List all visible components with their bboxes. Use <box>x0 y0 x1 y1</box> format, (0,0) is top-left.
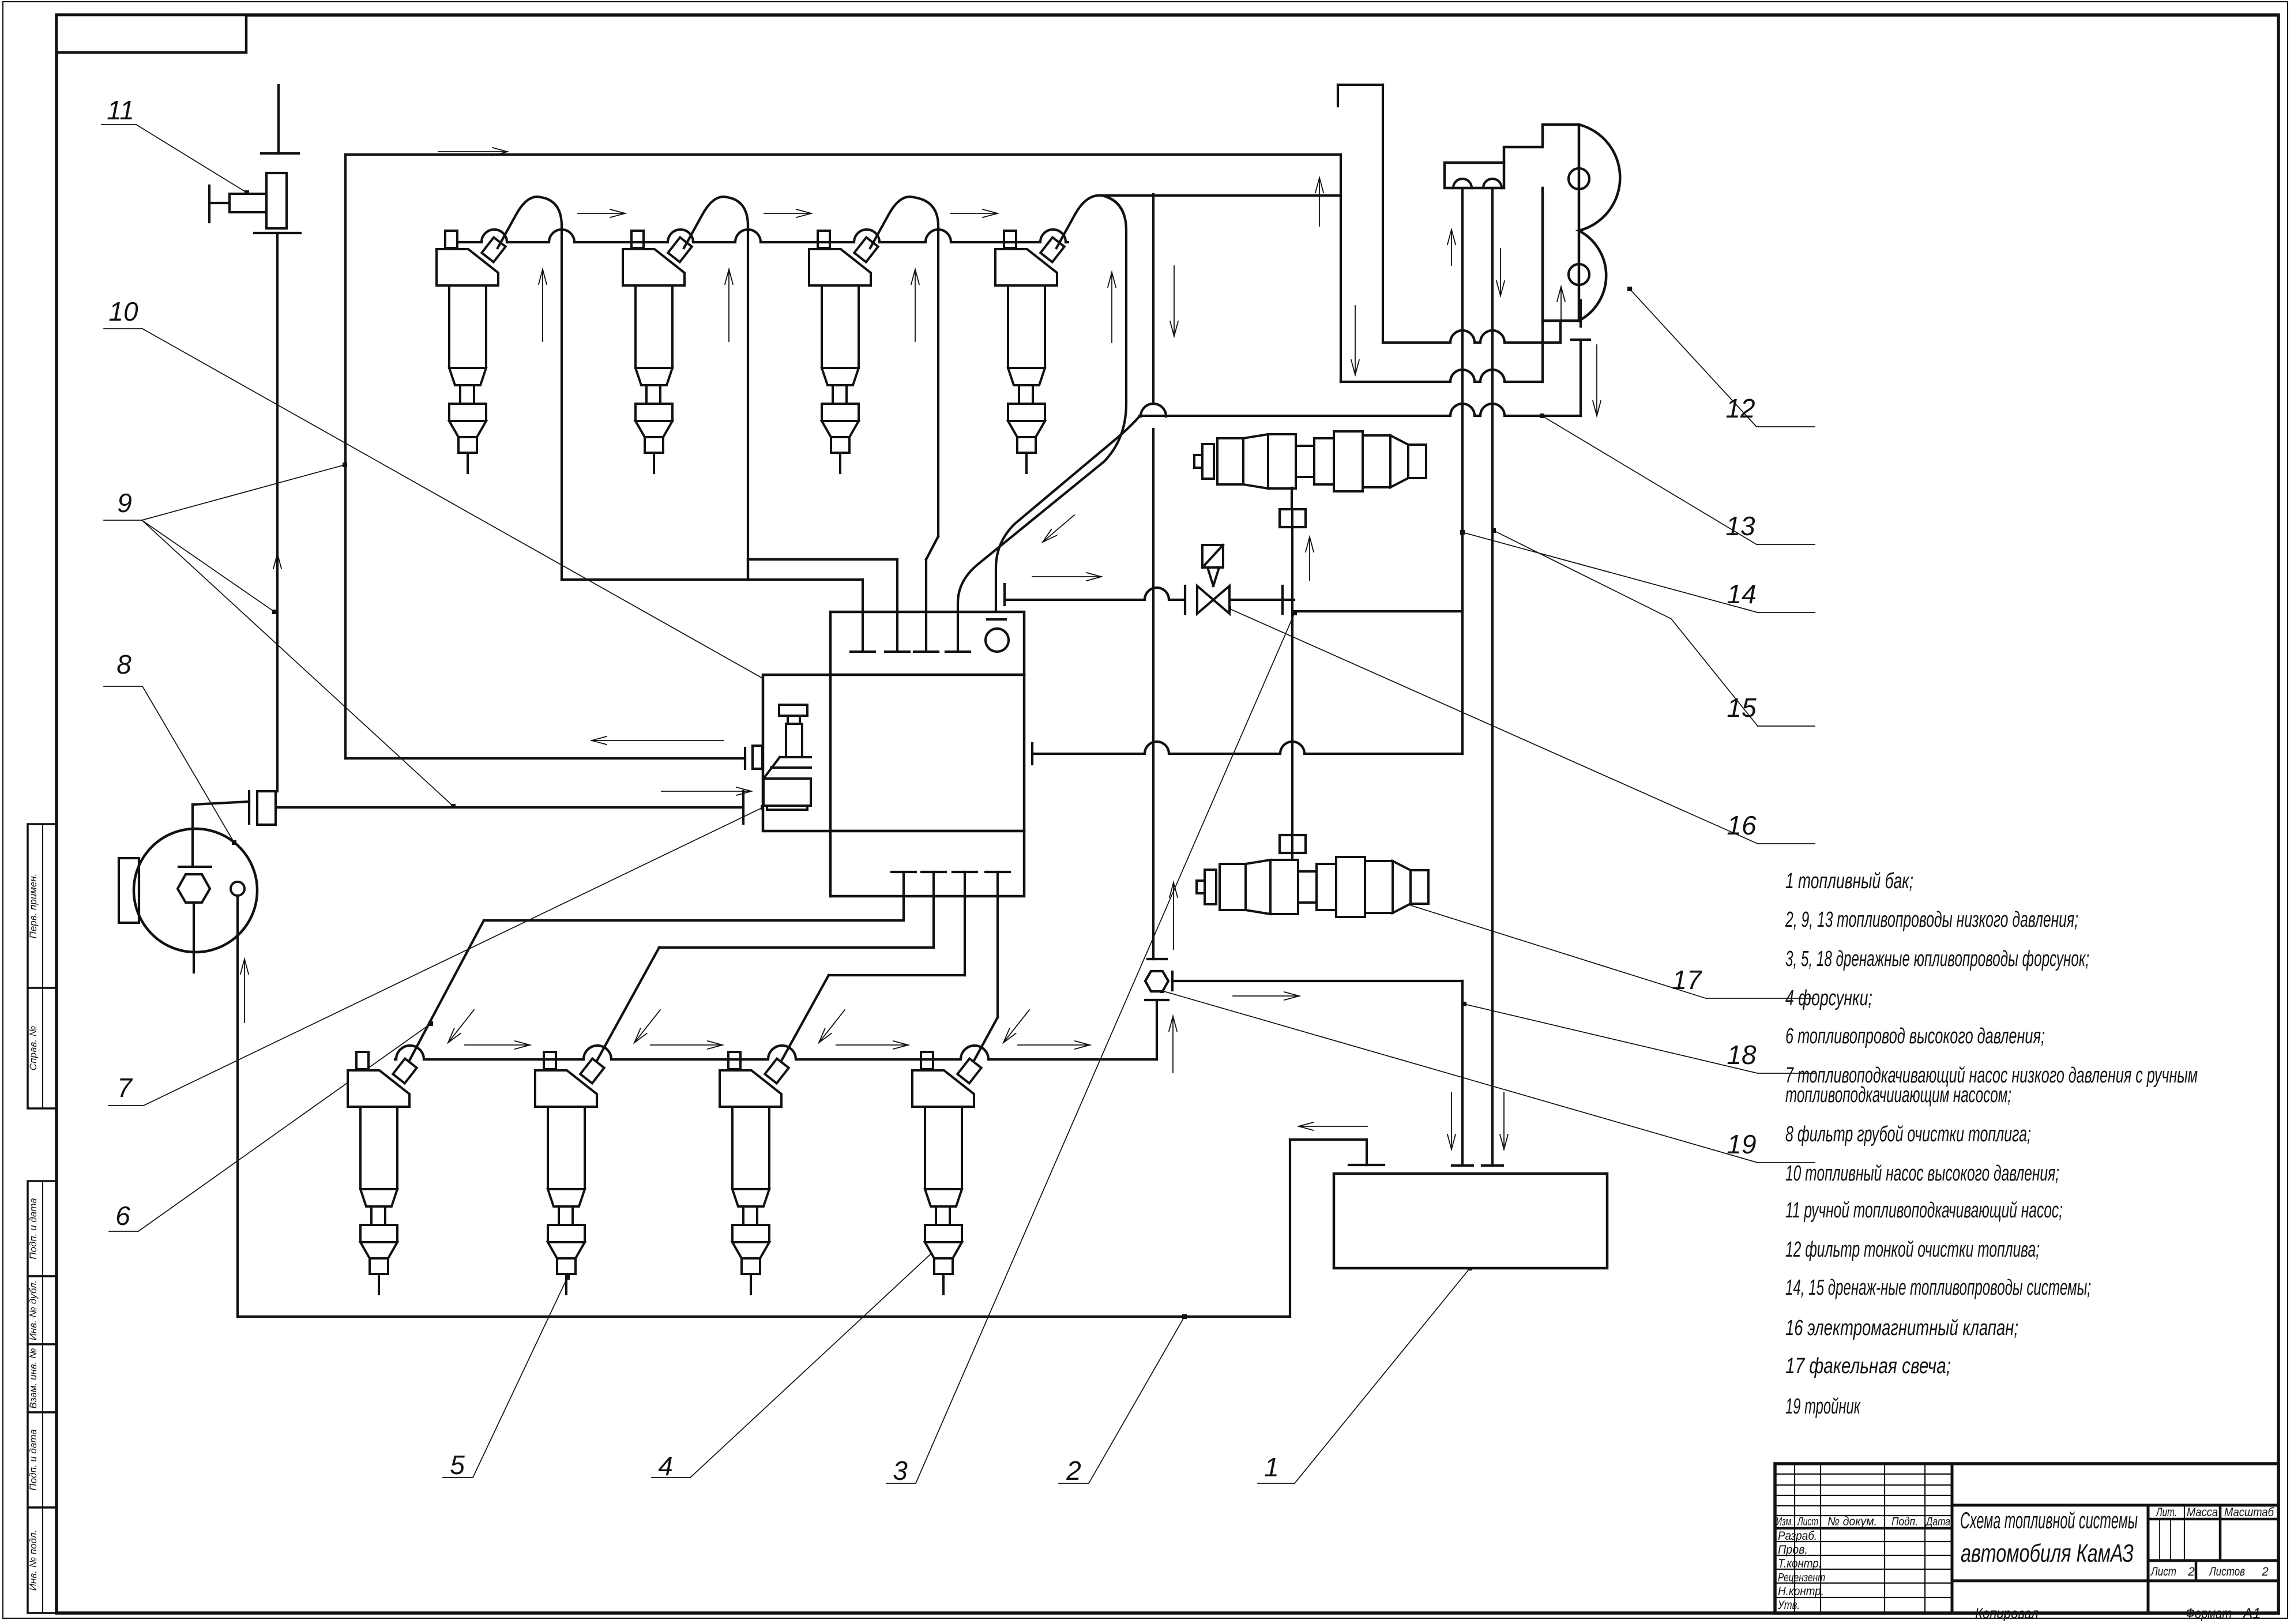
svg-text:17: 17 <box>1672 965 1702 995</box>
svg-text:13: 13 <box>1725 511 1755 541</box>
svg-text:Справ. №: Справ. № <box>28 1026 39 1070</box>
svg-text:А1: А1 <box>2242 1606 2261 1621</box>
svg-text:№ докум.: № докум. <box>1827 1515 1877 1528</box>
svg-text:14: 14 <box>1727 579 1756 609</box>
svg-text:2: 2 <box>2187 1565 2195 1578</box>
svg-text:3: 3 <box>893 1456 908 1486</box>
svg-text:12 фильтр тонкой очистки топли: 12 фильтр тонкой очистки топлива; <box>1785 1238 2040 1262</box>
svg-text:8 фильтр грубой очистки топлиг: 8 фильтр грубой очистки топлига; <box>1785 1122 2031 1146</box>
svg-text:3, 5, 18 дренажные юпливопрово: 3, 5, 18 дренажные юпливопроводы форсуно… <box>1785 947 2089 971</box>
svg-text:Лист: Лист <box>1797 1516 1818 1528</box>
svg-text:Листов: Листов <box>2208 1565 2245 1578</box>
svg-text:10 топливный насос высокого да: 10 топливный насос высокого давления; <box>1785 1161 2059 1186</box>
svg-text:Перв. примен.: Перв. примен. <box>28 874 39 939</box>
svg-text:1 топливный бак;: 1 топливный бак; <box>1785 869 1913 893</box>
svg-text:Т.контр.: Т.контр. <box>1778 1557 1822 1570</box>
svg-text:Подп.: Подп. <box>1891 1516 1918 1528</box>
svg-text:Подп. и дата: Подп. и дата <box>28 1198 39 1259</box>
svg-text:Масштаб: Масштаб <box>2224 1506 2274 1519</box>
svg-text:10: 10 <box>108 296 138 326</box>
svg-text:8: 8 <box>116 649 131 679</box>
svg-text:17 факельная свеча;: 17 факельная свеча; <box>1785 1354 1951 1378</box>
svg-text:19 тройник: 19 тройник <box>1785 1394 1861 1419</box>
svg-text:6: 6 <box>115 1201 130 1231</box>
svg-text:Подп. и дата: Подп. и дата <box>28 1429 39 1490</box>
svg-text:Инв. № дубл.: Инв. № дубл. <box>28 1280 39 1341</box>
svg-text:14, 15 дренаж-ные топливопрово: 14, 15 дренаж-ные топливопроводы системы… <box>1785 1276 2091 1300</box>
svg-text:15: 15 <box>1727 693 1757 723</box>
svg-text:2, 9, 13 топливопроводы низког: 2, 9, 13 топливопроводы низкого давления… <box>1785 908 2078 932</box>
svg-text:Инв. № подл.: Инв. № подл. <box>28 1530 39 1591</box>
svg-text:5: 5 <box>450 1450 465 1480</box>
svg-text:4: 4 <box>658 1451 673 1481</box>
svg-text:Рецензент: Рецензент <box>1778 1572 1825 1584</box>
svg-text:топливоподкачииающим насосом;: топливоподкачииающим насосом; <box>1785 1083 2011 1107</box>
svg-text:Взам. инв. №: Взам. инв. № <box>28 1348 39 1408</box>
svg-text:Разраб.: Разраб. <box>1778 1529 1817 1543</box>
svg-text:Утв.: Утв. <box>1777 1599 1800 1612</box>
svg-text:Изм.: Изм. <box>1776 1516 1793 1528</box>
svg-text:Пров.: Пров. <box>1778 1543 1808 1557</box>
svg-text:Лист: Лист <box>2150 1565 2176 1578</box>
svg-text:Формат: Формат <box>2186 1606 2232 1621</box>
svg-text:11: 11 <box>107 95 134 125</box>
svg-text:6 топливопровод высокого дав: 6 топливопровод высокого давления; <box>1785 1024 2045 1048</box>
svg-text:автомобиля КамАЗ: автомобиля КамАЗ <box>1961 1539 2134 1567</box>
svg-text:9: 9 <box>117 488 132 518</box>
svg-text:11 ручной топливоподкачивающий: 11 ручной топливоподкачивающий насос; <box>1785 1198 2063 1223</box>
svg-text:16 электромагнитный клапан;: 16 электромагнитный клапан; <box>1785 1316 2018 1340</box>
svg-text:Копировал: Копировал <box>1975 1606 2039 1621</box>
svg-text:2: 2 <box>2261 1565 2269 1578</box>
svg-text:Схема топливной системы: Схема топливной системы <box>1960 1508 2138 1533</box>
svg-text:Масса: Масса <box>2187 1506 2218 1519</box>
svg-text:Лит.: Лит. <box>2156 1506 2177 1519</box>
svg-text:2: 2 <box>1066 1456 1081 1486</box>
svg-text:18: 18 <box>1727 1040 1757 1070</box>
svg-text:7: 7 <box>117 1073 133 1103</box>
svg-text:1: 1 <box>1264 1452 1279 1482</box>
svg-text:16: 16 <box>1727 810 1757 840</box>
svg-text:Дата: Дата <box>1925 1516 1950 1528</box>
svg-text:Н.контр.: Н.контр. <box>1778 1585 1824 1598</box>
